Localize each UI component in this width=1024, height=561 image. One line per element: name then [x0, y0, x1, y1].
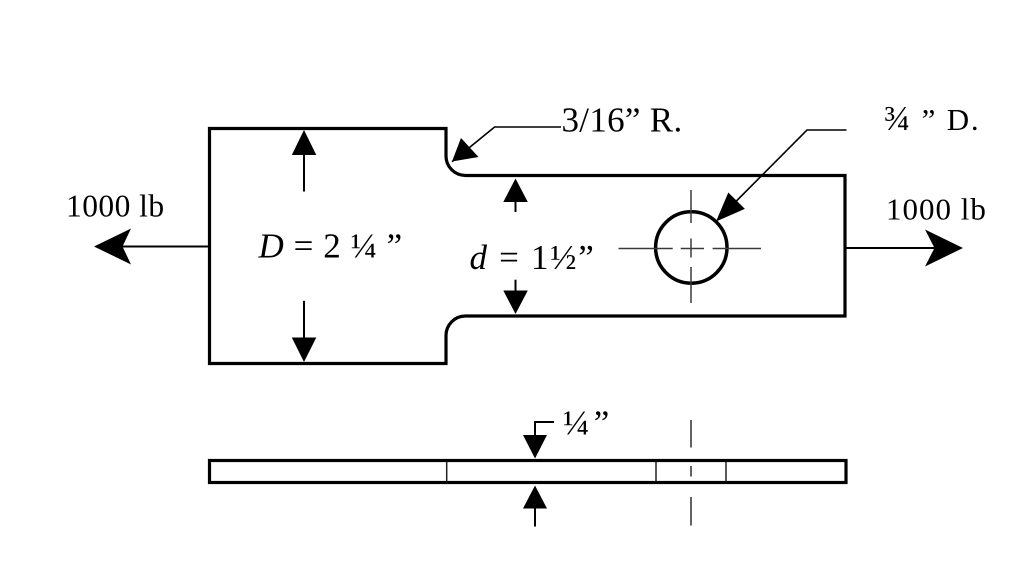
- side view hole edge line right: [725, 462, 727, 482]
- hole vertical centerline: [690, 190, 692, 303]
- side view step line: [446, 462, 448, 482]
- side view strip outline: [210, 461, 847, 483]
- right force arrowhead: [925, 230, 963, 267]
- thickness dimension lower arrow: [523, 486, 547, 509]
- hole horizontal centerline: [619, 248, 762, 250]
- left force arrow shaft: [100, 246, 209, 248]
- svg-text:3/16” R.: 3/16” R.: [562, 101, 683, 140]
- leader line for fillet radius label: [452, 127, 561, 162]
- stepped flat bar outline (top view): [210, 129, 846, 364]
- svg-text:1000 lb: 1000 lb: [66, 189, 165, 224]
- left force arrowhead: [94, 229, 131, 265]
- leader arrowhead at hole: [716, 193, 745, 222]
- svg-text:D = 2 ¼ ”: D = 2 ¼ ”: [258, 227, 403, 266]
- right force arrow shaft: [845, 247, 940, 249]
- svg-text:¾ ” D.: ¾ ” D.: [884, 99, 980, 138]
- dimension d upper arrow: [503, 179, 528, 203]
- thickness dimension upper arrow (elbow leader): [535, 422, 554, 435]
- svg-text:¼”: ¼”: [563, 404, 614, 443]
- side view hole edge line left: [655, 462, 657, 482]
- leader arrowhead at fillet: [452, 138, 479, 162]
- dimension D lower arrow: [303, 301, 305, 338]
- side view dashed centerline: [690, 420, 692, 526]
- dimension d lower arrow: [515, 280, 517, 291]
- svg-text:1000 lb: 1000 lb: [886, 192, 987, 227]
- hole (3/4 in dia): [656, 212, 727, 283]
- dimension D upper arrow: [303, 155, 305, 192]
- svg-text:d = 1½”: d = 1½”: [470, 238, 596, 277]
- leader line for hole diameter label: [718, 130, 847, 220]
